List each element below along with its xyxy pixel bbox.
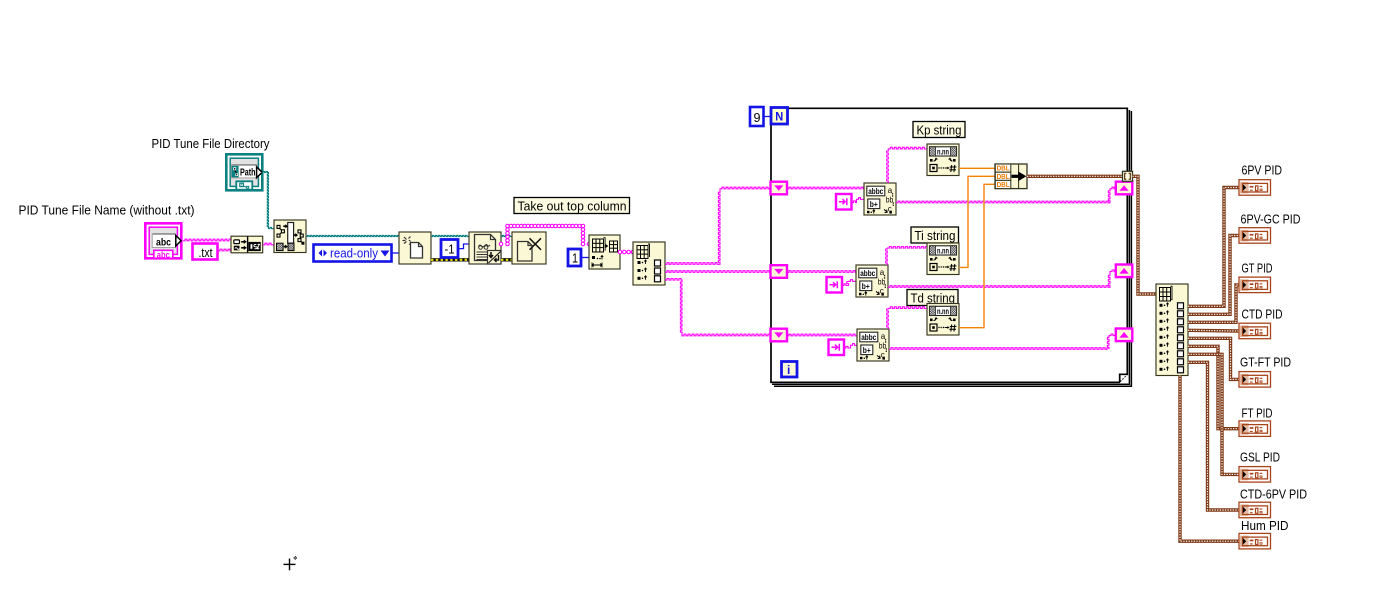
svg-text:GT-FT PID: GT-FT PID [1240,356,1291,370]
svg-text:n.nn: n.nn [937,246,949,255]
shift register input (left) row Td [771,329,788,342]
cluster indicator: FT PID [1239,421,1271,437]
svg-text:abbc: abbc [860,269,875,278]
svg-text:Path: Path [240,166,256,178]
wire: Concatenate Strings to Build Path (name input) [263,243,274,245]
cluster indicator: CTD PID [1239,323,1271,339]
wire: Index Array row 1 to 6PV-GC PID indicator (brown rope) [1188,236,1239,315]
label: Kp string [913,122,965,138]
wire: .txt constant to Concatenate Strings [218,249,231,251]
svg-text:Take out top column: Take out top column [518,200,627,214]
wiring tool cursor crosshair [284,559,296,571]
numeric constant: 1 [568,249,581,266]
label: Take out top column [514,198,630,214]
svg-text:bb: bb [879,342,887,351]
function: Fract/Exp String To Number (Kp) [927,144,959,176]
svg-text:abbc: abbc [868,187,883,196]
svg-text:Ti string: Ti string [915,229,956,243]
path control: PID Tune File Directory terminal [226,154,262,190]
svg-text:6PV PID: 6PV PID [1242,164,1283,178]
svg-text:FT PID: FT PID [1242,407,1273,421]
function: Close File [512,232,546,264]
svg-text:b+: b+ [862,282,870,291]
svg-text:1: 1 [572,252,578,266]
tab constant row Td [829,340,845,356]
svg-text:n.nn: n.nn [937,307,949,316]
wire: Open File to Read Text File (teal refnum) [431,235,469,236]
wire: Index Array row 4 to GT-FT PID indicator (brown rope) [1188,338,1239,379]
svg-text:DBL: DBL [997,166,1011,173]
wire: Td number to Bundle (orange DBL) [959,184,995,327]
wire: read-only to Open File (blue) [392,252,399,254]
shift register input (left) row Ti [771,265,788,278]
svg-text:CTD-6PV PID: CTD-6PV PID [1240,488,1307,502]
wire: Index Array row0 to loop shift register (pink 1D string) [665,187,770,264]
svg-text:DBL: DBL [997,174,1011,181]
wire: Build Path to Open/Create/Replace File (teal) [306,235,399,236]
wire: Index Array row 3 to CTD PID indicator (brown rope) [1188,329,1239,333]
function: Build Path [274,220,306,253]
function: Bundle (Kp,Ti,Td to cluster) [995,164,1027,189]
function: Match Pattern row Td [857,329,889,361]
wire: Match Pattern before-substring to Fract/Exp String To Number (Kp) [887,147,928,183]
svg-text:b+: b+ [870,200,878,209]
wire: tab constant to Match Pattern row Ti [842,280,856,286]
svg-text:i: i [787,363,790,377]
cluster indicator: 6PV PID [1239,180,1271,196]
wire: Index Array row2 to loop shift register (pink 1D string) [665,279,770,336]
wire: Match Pattern before-substring to Fract/Exp (Ti) [886,247,928,266]
wire: shift register to Match Pattern row Td (pink) [787,334,857,336]
shift register output (right) row Ti [1116,265,1133,278]
cluster indicator: GT PID [1239,277,1271,293]
wire: Index Array row 6 to GSL PID indicator (brown rope) [1188,354,1239,474]
wire: Ti number to Bundle (orange DBL) [959,176,995,267]
loop output tunnel [] [1123,171,1133,181]
svg-text:PID Tune File Directory: PID Tune File Directory [152,137,271,151]
svg-text:abc: abc [157,250,170,261]
label: Ti string [911,227,959,243]
numeric constant: -1 [441,240,458,258]
cluster indicator: GSL PID [1239,467,1271,483]
svg-text:b+: b+ [863,346,871,355]
function: Concatenate Strings [231,236,263,253]
shift register output (right) row Td [1116,329,1133,342]
svg-text:DBL: DBL [997,182,1011,189]
wire: Delete From Array to Index Array (pink chain) [618,250,635,254]
wire: text 2D-array output of Read over Close to Delete From Array (pink chain) [499,224,591,246]
wire: Match Pattern before-substring to Fract/Exp (Td) [887,307,928,329]
svg-text:abbc: abbc [861,333,876,342]
shift register output (right) row Kp [1116,182,1133,195]
wire: Match Pattern after-substring row Td to right shift register [889,334,1116,349]
wire: Index Array row 0 to 6PV PID indicator (brown rope) [1188,188,1239,307]
cluster indicator: CTD-6PV PID [1239,502,1271,518]
wire: Match Pattern after-substring row Ti to right shift register [888,270,1116,287]
wire: Match Pattern after-substring row Kp to right shift register [896,187,1116,203]
wire: Index Array row 8 to Hum PID indicator (brown rope) [1180,376,1239,542]
svg-text:bb: bb [886,196,894,205]
wire: Bundle output cluster to loop tunnel (brown rope) [1027,175,1123,178]
for loop border [771,108,1131,386]
tab constant row Ti [827,277,843,293]
wire: Index Array row 5 to FT PID indicator (brown rope) [1188,346,1239,428]
svg-text:n.nn: n.nn [937,147,949,156]
numeric constant: 9 (loop count) [750,107,764,126]
wire: error cluster Open File to Read Text File [431,258,469,261]
shift register input (left) row Kp [771,182,788,195]
string constant: .txt [193,244,218,260]
wire: -1 to Read Text File count input (blue) [458,244,469,249]
wire: Index Array row 2 to GT PID indicator (brown rope) [1188,285,1239,322]
svg-text:Hum PID: Hum PID [1241,519,1289,533]
wire: Index Array row 7 to CTD-6PV PID indicator (brown rope) [1188,362,1239,510]
wire: error cluster Read to Close File [501,258,512,261]
wire: tab constant to Match Pattern row Kp [852,198,865,203]
wire: tunnel to Index Array input (brown rope, cluster array) [1133,176,1157,294]
function: Index Array (3 rows) [633,242,665,285]
tab constant row Kp [836,194,852,210]
function: Match Pattern row Kp [864,183,896,215]
wire: path control to Build Path (teal path wire) [262,171,275,228]
svg-text:abc: abc [156,236,171,248]
wire: Index Array row1 to loop shift register (pink 1D string) [665,271,770,273]
wire: tab constant to Match Pattern row Td [844,344,857,348]
wire: Read Text File to Close File (teal refnum) [501,235,512,236]
svg-text:GSL PID: GSL PID [1240,451,1280,465]
svg-text:Kp string: Kp string [917,124,962,138]
svg-text:PID Tune File Name (without .t: PID Tune File Name (without .txt) [19,204,195,218]
svg-text:GT PID: GT PID [1242,262,1273,276]
svg-text:-1: -1 [445,243,455,257]
function: Fract/Exp String To Number (Td) [927,304,959,336]
svg-text:9: 9 [754,110,761,125]
wire: 9 to N terminal (blue) [764,116,772,118]
function: Match Pattern row Ti [856,265,888,297]
wire: shift register to Match Pattern row Kp (pink) [787,187,864,189]
svg-text:read-only: read-only [330,246,378,261]
svg-text:bb: bb [878,278,886,287]
function: Delete From Array [589,235,620,269]
function: Index Array (9 rows, cluster array) [1156,284,1188,376]
loop iteration terminal i [782,362,798,378]
wire: string control to Concatenate Strings [183,239,231,241]
svg-text:N: N [775,110,783,124]
cluster indicator: Hum PID [1239,533,1271,549]
wire: shift register to Match Pattern row Ti (pink) [787,271,856,273]
string control: PID Tune File Name terminal [145,223,181,260]
svg-text:CTD PID: CTD PID [1242,308,1283,322]
svg-text:.txt: .txt [199,246,213,260]
wire: 1 to Delete From Array index (blue) [581,257,589,259]
cluster indicator: 6PV-GC PID [1239,228,1271,244]
function: Fract/Exp String To Number (Ti) [927,243,959,275]
enum constant: read-only [314,245,392,262]
function: Read from Text File [469,232,501,264]
loop count terminal N [771,108,788,125]
cluster indicator: GT-FT PID [1239,372,1271,388]
function: Open/Create/Replace File [399,232,431,264]
label: Td string [907,290,958,306]
wire: Kp number to Bundle (orange DBL) [959,167,995,169]
svg-text:6PV-GC PID: 6PV-GC PID [1241,213,1301,227]
